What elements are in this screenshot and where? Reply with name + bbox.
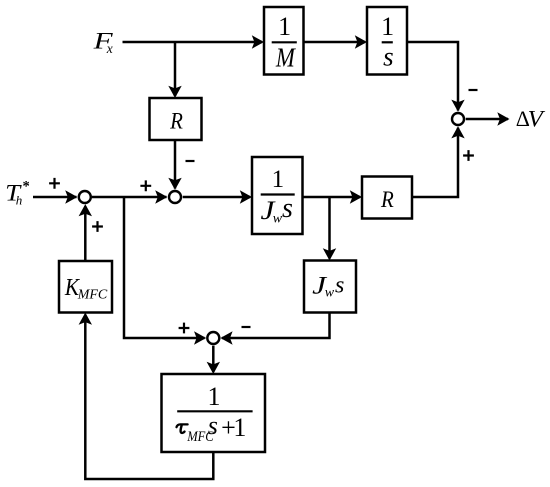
svg-text:w: w: [325, 285, 335, 300]
svg-text:s: s: [335, 273, 344, 299]
svg-text:s: s: [383, 41, 394, 71]
svg-text:s: s: [282, 193, 293, 224]
svg-text:1: 1: [233, 413, 246, 442]
svg-text:1: 1: [272, 166, 285, 193]
svg-text:1: 1: [208, 382, 221, 411]
svg-text:1: 1: [381, 12, 394, 41]
svg-text:*: *: [23, 179, 30, 195]
svg-text:x: x: [106, 41, 113, 56]
svg-text:1: 1: [278, 12, 291, 41]
svg-text:h: h: [16, 193, 22, 208]
svg-text:MFC: MFC: [77, 287, 108, 302]
svg-text:R: R: [169, 108, 183, 133]
svg-text:M: M: [275, 42, 296, 72]
svg-text:s: s: [208, 411, 218, 440]
svg-text:R: R: [380, 187, 394, 212]
